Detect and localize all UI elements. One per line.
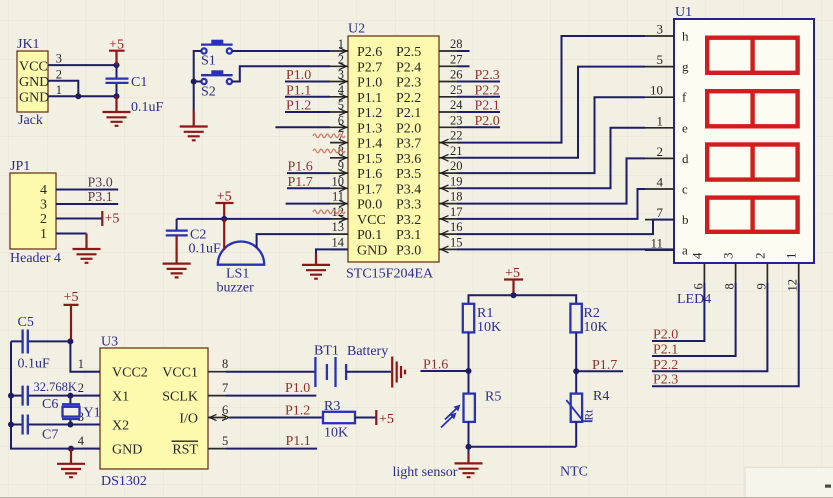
svg-text:P2.0: P2.0 <box>653 328 678 343</box>
svg-text:5: 5 <box>222 434 228 448</box>
svg-text:P2.4: P2.4 <box>396 60 421 75</box>
svg-text:+5: +5 <box>105 212 120 227</box>
wire X2 net <box>29 424 100 426</box>
svg-text:GND: GND <box>19 91 49 106</box>
wire divider top <box>469 295 577 304</box>
wire net P1.0 (U2 pin3) <box>285 81 330 83</box>
svg-text:1: 1 <box>40 227 47 242</box>
svg-text:VCC: VCC <box>357 213 386 228</box>
wire left rail <box>11 341 100 448</box>
capacitor C7 <box>11 424 22 426</box>
svg-text:P2.0: P2.0 <box>475 114 500 129</box>
svg-text:Y1: Y1 <box>84 406 101 421</box>
svg-text:3: 3 <box>721 253 736 260</box>
ground (JP1) <box>73 249 101 263</box>
wire net P2.2 (U2 pin25) <box>457 96 500 98</box>
seven-segment digit 1 <box>707 38 797 73</box>
wire U2 pin17 to U1 c <box>457 189 645 219</box>
display U1 LED4 <box>674 19 814 263</box>
svg-text:LED4: LED4 <box>677 292 711 307</box>
wire S1 to U2 pin 1 <box>232 50 330 52</box>
svg-text:BT1: BT1 <box>314 344 339 359</box>
svg-text:2: 2 <box>78 381 84 395</box>
wire U2 pin22 to U1 h <box>457 36 645 143</box>
svg-text:4: 4 <box>40 183 47 198</box>
svg-text:C1: C1 <box>131 75 147 90</box>
resistor R1 <box>463 304 474 333</box>
wire U1 pin8 to net P2.1 <box>652 283 736 356</box>
wire divider bottom <box>469 422 577 447</box>
svg-text:d: d <box>682 151 689 166</box>
svg-text:5: 5 <box>657 52 664 67</box>
svg-text:P2.2: P2.2 <box>396 91 421 106</box>
svg-text:P2.3: P2.3 <box>396 76 421 91</box>
svg-text:1: 1 <box>784 253 799 260</box>
capacitor C2 <box>176 219 178 231</box>
svg-text:P2.1: P2.1 <box>653 343 678 358</box>
sheet corner region bottom-right <box>746 468 833 498</box>
svg-text:P2.6: P2.6 <box>357 45 382 60</box>
svg-text:P3.5: P3.5 <box>396 167 421 182</box>
svg-text:P1.2: P1.2 <box>285 404 310 419</box>
seven-segment digit 3 <box>707 145 797 180</box>
svg-text:2: 2 <box>657 144 664 159</box>
svg-text:P2.3: P2.3 <box>475 68 500 83</box>
svg-text:P1.0: P1.0 <box>286 68 311 83</box>
svg-text:VCC1: VCC1 <box>162 366 198 381</box>
wire U2 GND pin14 to ground <box>316 249 348 253</box>
svg-text:4: 4 <box>78 434 85 448</box>
svg-text:10K: 10K <box>584 320 608 335</box>
wire U3 VCC1 to battery <box>226 371 315 373</box>
svg-text:+5: +5 <box>379 412 394 427</box>
svg-text:0.1uF: 0.1uF <box>131 100 164 115</box>
wire U2 pin18 to U1 d <box>457 158 645 203</box>
svg-text:a: a <box>682 243 688 258</box>
svg-text:SCLK: SCLK <box>162 390 198 405</box>
svg-text:f: f <box>682 90 687 105</box>
svg-text:4: 4 <box>689 252 704 259</box>
U1 bottom pin stubs <box>704 263 798 283</box>
svg-text:P3.6: P3.6 <box>396 152 421 167</box>
wire net P2.3 (U2 pin26) <box>457 81 500 83</box>
svg-text:26: 26 <box>450 68 463 82</box>
wire battery to ground <box>346 371 391 373</box>
svg-text:P1.4: P1.4 <box>357 137 382 152</box>
svg-text:VCC: VCC <box>19 59 48 74</box>
svg-text:P0.1: P0.1 <box>357 228 382 243</box>
svg-text:P2.7: P2.7 <box>357 60 382 75</box>
connector JK1 <box>17 51 48 112</box>
svg-text:P3.1: P3.1 <box>88 190 113 205</box>
resistor R3 <box>323 412 355 423</box>
no-connect squiggle pin 7 <box>313 134 345 138</box>
wire U1 pin6 to net P2.0 <box>652 283 704 341</box>
wire +5 node to U3 pin1 <box>70 341 100 371</box>
wire net P1.2 (U2 pin5) <box>285 111 330 113</box>
svg-text:P1.6: P1.6 <box>423 358 448 373</box>
svg-text:VCC2: VCC2 <box>112 366 148 381</box>
wire X1 net <box>29 395 100 397</box>
svg-text:LS1: LS1 <box>226 267 249 282</box>
svg-text:24: 24 <box>450 98 463 112</box>
svg-text:P1.2: P1.2 <box>286 99 311 114</box>
photoresistor R5 <box>464 394 475 422</box>
header JP1 <box>10 173 56 249</box>
ground (C2) <box>163 264 191 278</box>
svg-text:NTC: NTC <box>560 465 588 480</box>
capacitor C6 <box>11 395 22 397</box>
svg-text:STC15F204EA: STC15F204EA <box>346 267 434 282</box>
svg-text:P1.1: P1.1 <box>357 91 382 106</box>
svg-text:I/O: I/O <box>179 412 198 427</box>
svg-text:h: h <box>682 29 689 44</box>
ground (U3 GND) <box>68 446 74 452</box>
wire net P1.7 (U2 pin10) <box>287 187 330 189</box>
svg-text:P2.1: P2.1 <box>475 99 500 114</box>
svg-text:17: 17 <box>450 205 463 219</box>
wire net P2.0 (U2 pin23) <box>457 126 500 128</box>
svg-text:C6: C6 <box>42 397 58 412</box>
wire U3 I/O net P1.2 to R3 <box>230 417 324 419</box>
mcu U2 STC15F204EA <box>348 36 439 262</box>
wire U1 pin9 to net P2.2 <box>652 283 767 371</box>
wire R3 to +5 <box>355 417 376 419</box>
svg-text:e: e <box>682 120 688 135</box>
svg-text:P3.3: P3.3 <box>396 198 421 213</box>
svg-text:P3.1: P3.1 <box>396 228 421 243</box>
wire JK1 GND pin2 <box>48 81 78 97</box>
svg-text:P1.6: P1.6 <box>357 167 382 182</box>
svg-text:P1.0: P1.0 <box>285 381 310 396</box>
svg-text:P1.0: P1.0 <box>357 76 382 91</box>
svg-text:R4: R4 <box>593 389 609 404</box>
svg-text:25: 25 <box>450 83 463 97</box>
svg-text:P1.1: P1.1 <box>286 434 311 449</box>
svg-text:light sensor: light sensor <box>393 465 458 480</box>
wire net P1.6 <box>421 332 469 393</box>
capacitor C5 <box>11 340 70 342</box>
svg-text:1: 1 <box>657 113 664 128</box>
wire U2 pin15 to U1 a <box>457 248 674 250</box>
svg-text:P2.3: P2.3 <box>653 373 678 388</box>
svg-text:C2: C2 <box>190 228 206 243</box>
svg-text:28: 28 <box>450 37 463 51</box>
svg-text:R1: R1 <box>477 306 493 321</box>
wire JP1 pin1 to ground <box>56 233 87 235</box>
power +5 (R3 rotated) <box>375 410 377 425</box>
wire U2 pin16 to U1 b <box>457 220 674 235</box>
svg-text:3: 3 <box>657 22 664 37</box>
svg-text:23: 23 <box>450 113 463 127</box>
svg-text:P2.2: P2.2 <box>653 358 678 373</box>
svg-text:P2.5: P2.5 <box>396 45 421 60</box>
svg-text:JK1: JK1 <box>17 37 40 52</box>
wire net P1.6 (U2 pin9) <box>287 172 330 174</box>
svg-text:R3: R3 <box>324 399 340 414</box>
svg-text:P2.2: P2.2 <box>475 83 500 98</box>
svg-text:32.768K: 32.768K <box>34 380 77 394</box>
svg-text:2: 2 <box>56 67 62 81</box>
no-connect squiggle pin 8 <box>313 149 345 153</box>
svg-text:P1.7: P1.7 <box>592 358 617 373</box>
wire U3 RST net P1.1 <box>226 448 317 450</box>
svg-text:Header 4: Header 4 <box>10 251 61 266</box>
svg-text:1: 1 <box>78 357 84 371</box>
battery BT1 <box>315 357 346 387</box>
ground battery (rotated) <box>392 357 405 388</box>
svg-text:U3: U3 <box>101 335 118 350</box>
svg-text:C7: C7 <box>42 428 58 443</box>
wire button rail <box>194 51 202 110</box>
svg-text:9: 9 <box>754 283 768 289</box>
svg-text:JP1: JP1 <box>10 159 30 174</box>
svg-text:14: 14 <box>332 235 345 249</box>
ground (C1) <box>103 96 131 126</box>
U1 left pin stubs <box>645 36 674 250</box>
svg-text:P0.0: P0.0 <box>357 198 382 213</box>
wire net P2.1 (U2 pin24) <box>457 111 500 113</box>
wire U2 pin6 <box>275 126 330 128</box>
svg-text:P1.2: P1.2 <box>357 106 382 121</box>
wire U2 pin28 <box>457 50 470 52</box>
svg-text:2: 2 <box>752 253 767 260</box>
wire net P1.7 <box>576 332 623 393</box>
svg-text:P1.3: P1.3 <box>357 121 382 136</box>
svg-text:GND: GND <box>357 243 387 258</box>
svg-text:R5: R5 <box>485 390 501 405</box>
svg-text:10K: 10K <box>477 320 501 335</box>
svg-text:4: 4 <box>657 175 664 190</box>
pin direction arrows U2 right <box>441 139 449 253</box>
svg-text:P1.7: P1.7 <box>357 182 382 197</box>
svg-text:P2.0: P2.0 <box>396 121 421 136</box>
wire U2 pin11 <box>286 203 330 205</box>
ground (U2 GND) <box>302 265 330 279</box>
svg-text:P1.5: P1.5 <box>357 152 382 167</box>
svg-text:20: 20 <box>450 159 463 173</box>
svg-text:RST: RST <box>172 443 198 458</box>
svg-text:U1: U1 <box>675 5 692 20</box>
svg-text:GND: GND <box>112 443 142 458</box>
svg-text:6: 6 <box>691 283 705 289</box>
svg-text:P3.2: P3.2 <box>396 213 421 228</box>
buzzer LS1 <box>218 241 264 264</box>
I/O bidirectional arrow <box>210 414 230 420</box>
svg-text:GND: GND <box>19 75 49 90</box>
svg-text:19: 19 <box>450 174 463 188</box>
svg-text:0.1uF: 0.1uF <box>18 357 51 372</box>
ground (S2) <box>180 127 208 141</box>
svg-text:DS1302: DS1302 <box>101 474 147 489</box>
node junction dots JK1/C1 <box>114 62 120 68</box>
svg-text:P1.1: P1.1 <box>286 83 311 98</box>
pin direction arrows U2 left <box>339 48 347 223</box>
svg-text:Rt: Rt <box>584 409 596 421</box>
node junction S2 <box>191 79 197 85</box>
wire net P3.1 <box>56 203 118 205</box>
svg-text:U2: U2 <box>348 22 365 37</box>
svg-text:15: 15 <box>450 235 463 249</box>
ground (R5) <box>468 447 470 454</box>
wire U2 pin19 to U1 e <box>457 128 645 189</box>
crystal Y1 <box>69 396 71 425</box>
wire U2 pin27 <box>457 65 470 67</box>
wire U1 pin12 to net P2.3 <box>652 283 799 386</box>
pushbutton S2 <box>201 79 206 84</box>
rtc U3 DS1302 <box>100 348 208 469</box>
wire net P3.0 <box>56 189 118 191</box>
svg-text:3: 3 <box>40 198 47 213</box>
svg-text:b: b <box>682 212 689 227</box>
svg-text:P3.4: P3.4 <box>396 182 421 197</box>
svg-text:10K: 10K <box>324 426 348 441</box>
svg-text:P2.1: P2.1 <box>396 106 421 121</box>
svg-text:13: 13 <box>332 220 345 234</box>
wire U3 SCLK net P1.0 <box>226 395 316 397</box>
wire JK1 GND pin1 to C1 node <box>48 95 117 97</box>
svg-text:8: 8 <box>723 283 737 289</box>
svg-text:2: 2 <box>40 212 47 227</box>
svg-text:c: c <box>682 182 688 197</box>
svg-text:C5: C5 <box>18 315 34 330</box>
svg-text:X1: X1 <box>112 390 129 405</box>
seven-segment digit 2 <box>707 91 797 126</box>
svg-text:10: 10 <box>650 83 663 98</box>
wire JK1 VCC to C1 node <box>48 64 117 66</box>
capacitor C1 <box>116 65 118 96</box>
svg-text:1: 1 <box>56 83 62 97</box>
no-connect squiggle pin 12 <box>313 210 345 214</box>
svg-text:R2: R2 <box>584 306 600 321</box>
wire U2 pin20 to U1 f <box>457 97 645 173</box>
svg-text:S1: S1 <box>201 54 216 69</box>
svg-text:21: 21 <box>450 144 463 158</box>
svg-text:buzzer: buzzer <box>217 281 255 296</box>
svg-text:7: 7 <box>657 205 664 220</box>
svg-text:27: 27 <box>450 52 463 66</box>
svg-text:P1.7: P1.7 <box>288 175 313 190</box>
svg-text:X2: X2 <box>112 419 129 434</box>
svg-text:18: 18 <box>450 190 463 204</box>
svg-text:7: 7 <box>222 381 228 395</box>
pushbutton S1 <box>201 48 206 53</box>
svg-text:Jack: Jack <box>18 113 43 128</box>
svg-text:12: 12 <box>786 279 800 292</box>
svg-text:P3.7: P3.7 <box>396 137 421 152</box>
svg-text:P3.0: P3.0 <box>88 176 113 191</box>
svg-text:3: 3 <box>56 52 62 66</box>
svg-text:P1.6: P1.6 <box>288 160 313 175</box>
svg-text:+5: +5 <box>64 290 79 305</box>
thermistor R4 <box>571 394 582 422</box>
svg-text:22: 22 <box>450 129 463 143</box>
svg-text:g: g <box>682 59 689 74</box>
seven-segment digit 4 <box>707 198 797 232</box>
resistor R2 <box>570 304 581 333</box>
svg-text:0.1uF: 0.1uF <box>189 242 222 257</box>
wire U2 pin21 to U1 g <box>457 67 645 158</box>
wire net P1.1 (U2 pin4) <box>285 96 330 98</box>
wire +5 (JP1) <box>56 218 102 220</box>
svg-text:S2: S2 <box>201 85 216 100</box>
wire S2 to U2 pin 2 <box>232 66 330 81</box>
svg-text:16: 16 <box>450 220 463 234</box>
svg-text:Battery: Battery <box>347 344 388 359</box>
wire +5 node to U2 VCC pin12 <box>177 218 330 220</box>
svg-text:8: 8 <box>222 357 228 371</box>
svg-text:P3.0: P3.0 <box>396 243 421 258</box>
